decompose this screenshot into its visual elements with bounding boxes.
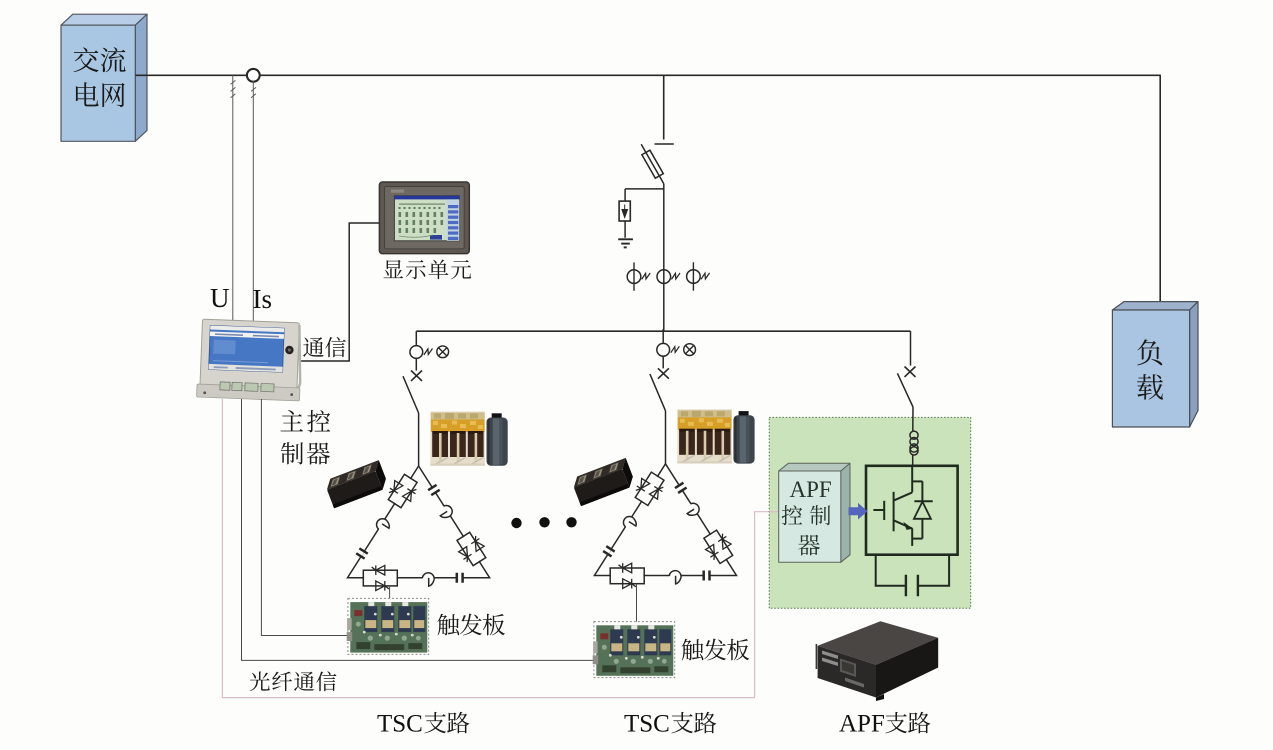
thyristor valve module (bottom side) — [363, 565, 397, 590]
fuse cutout symbol (left side) — [374, 516, 392, 533]
wire: fibre line to trigger board 2 — [242, 399, 594, 660]
node: PCC tap circle on top bus — [247, 69, 260, 82]
reactor photo — [430, 412, 485, 466]
fuse cutout symbol (right side) — [684, 501, 702, 518]
svg-text:APF: APF — [839, 711, 885, 738]
fuse cutout symbol (left side) — [621, 514, 639, 531]
APF green zone box — [769, 417, 971, 608]
CT phase C — [687, 270, 701, 284]
thyristor valve module (right side) — [700, 528, 737, 567]
wire: main AC bus (top horizontal) — [135, 74, 1161, 76]
wire: fibre comm loop to APF controller (pink) — [222, 399, 778, 698]
thyristor module photo — [571, 458, 636, 506]
wire: coil to inverter box — [912, 455, 914, 466]
CT phase A (circle+squiggle) — [627, 270, 641, 284]
fuse cutout symbol (bottom) — [422, 573, 434, 586]
capacitor (right side) — [675, 483, 687, 493]
svg-text:TSC: TSC — [377, 711, 423, 738]
trigger board 1 photo — [348, 598, 429, 654]
svg-text:APF: APF — [790, 477, 832, 502]
wire: blade to delta apex — [665, 411, 667, 464]
display unit monitor photo — [379, 182, 469, 254]
wire: feeder below blade — [663, 184, 665, 332]
label 控制 (controller) — [782, 505, 803, 525]
disconnector blade (APF branch) — [897, 373, 913, 407]
lamp/feedback symbol circle-X on TSC branch 1 — [437, 346, 449, 358]
label 主控 — [281, 410, 304, 431]
wire: delta-1 to trigger board 1 — [389, 586, 391, 599]
label 触发板 (board 2) — [682, 639, 704, 661]
switch X mark (APF branch) — [905, 367, 916, 377]
wire: current sense Is line — [252, 81, 254, 321]
reactor photo — [677, 409, 732, 463]
break ticks on U line — [231, 80, 236, 97]
wire: APF branch stub from bus — [910, 331, 912, 365]
wire: below CT — [662, 356, 664, 368]
capacitor (bottom) — [704, 571, 710, 581]
label 通信 — [303, 337, 324, 357]
capacitor (left side) — [603, 546, 615, 556]
inductor coil L (APF) — [910, 431, 918, 455]
thyristor valve module (left side of delta) — [631, 470, 668, 509]
power capacitor cylinder photo — [487, 413, 508, 466]
label 器 (controller) — [798, 535, 820, 556]
label 显示单元 — [384, 260, 404, 278]
wire: middle feeder upper segment — [663, 75, 665, 139]
svg-text:Is: Is — [253, 284, 273, 314]
thyristor module photo — [324, 460, 389, 508]
wire: TSC branch 2 feed stub — [662, 329, 664, 343]
breaker fixed contact bar — [655, 143, 674, 145]
capacitor (bottom) — [457, 573, 463, 583]
label 制器 — [281, 442, 303, 464]
main controller device photo — [197, 319, 303, 401]
inverter unit box (IGBT bridge) — [866, 466, 958, 555]
wire: drop to load — [1159, 75, 1161, 301]
svg-text:U: U — [210, 283, 230, 313]
DC link capacitor — [906, 575, 918, 597]
switch X mark — [411, 371, 422, 381]
wire: fibre pink segment into green zone — [769, 511, 779, 513]
APF cabinet photo — [816, 621, 938, 701]
CT circle on TSC branch 1 — [410, 346, 423, 359]
wire: LV bus (horizontal) — [416, 330, 910, 332]
power capacitor cylinder photo — [733, 411, 754, 464]
fuse-disconnector blade with fuse body — [641, 144, 664, 184]
label 触发板 (board 1) — [437, 614, 459, 636]
AC grid source box 交流电网 — [61, 14, 147, 141]
wire: fibre line to trigger board 1 — [261, 399, 348, 636]
disconnector blade — [650, 374, 666, 411]
switch X mark — [658, 368, 669, 378]
trigger board 2 photo — [594, 622, 675, 678]
delta triangle wires — [348, 466, 490, 578]
TSC branch 2 group — [571, 329, 755, 588]
wire: delta-2 to trigger board 2 — [636, 584, 638, 622]
fuse cutout symbol (bottom) — [669, 571, 681, 584]
wire: voltage sense U line — [232, 75, 234, 321]
arrester arrow inside box — [622, 205, 628, 218]
wire: blade into green zone — [912, 407, 914, 432]
TSC branch 1 group — [324, 331, 508, 590]
wire: arrester to ground — [624, 221, 626, 238]
ground symbol — [618, 239, 633, 247]
ellipsis dots between TSC branches — [511, 517, 576, 528]
load box 负载 — [1112, 302, 1198, 427]
thyristor valve module (left side of delta) — [384, 472, 421, 511]
break ticks on Is line — [251, 87, 256, 97]
wire gaps under delta elements — [395, 479, 410, 503]
CT phase B on feeder — [657, 270, 671, 284]
wire: below CT — [415, 358, 417, 370]
label 光纤通信 — [250, 671, 270, 691]
wire: blade to delta apex — [418, 413, 420, 466]
thyristor valve module (bottom side) — [610, 563, 644, 588]
capacitor (right side) — [428, 485, 440, 495]
wire gaps under delta elements — [642, 477, 657, 501]
svg-text:TSC: TSC — [624, 711, 670, 738]
thyristor valve module (right side) — [453, 530, 490, 569]
CT circle on TSC branch 2 — [657, 343, 670, 356]
surge arrester / PT box — [619, 201, 630, 221]
IGBT Q1 with antiparallel diode — [873, 466, 932, 546]
fuse cutout symbol (right side) — [437, 503, 455, 520]
lamp/feedback symbol circle-X on TSC branch 2 — [684, 344, 696, 356]
wire: DC link down legs — [876, 555, 949, 586]
blue control arrow — [849, 503, 868, 520]
capacitor (left side) — [356, 548, 368, 558]
APF controller 3D box — [779, 463, 850, 562]
wire: PT tap horizontal — [625, 189, 664, 201]
wire: comm link display to controller — [300, 223, 379, 361]
disconnector blade — [403, 376, 419, 413]
delta triangle wires — [594, 464, 736, 576]
wire: TSC branch 1 feed stub — [415, 331, 417, 345]
